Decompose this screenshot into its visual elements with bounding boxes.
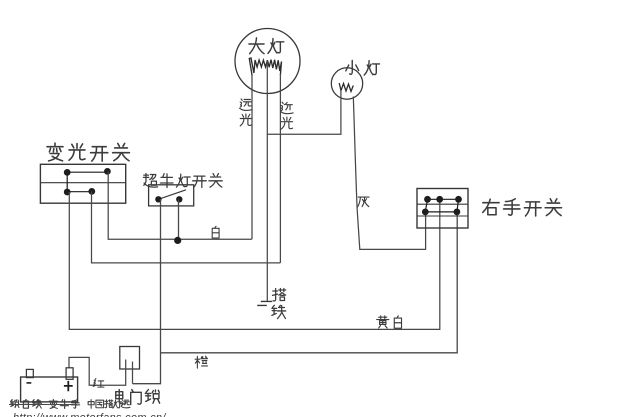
dimmer contact dot bottom-right	[88, 188, 95, 195]
right switch contact dot mid-left	[422, 209, 429, 216]
right-hand switch box 右手开关	[417, 189, 468, 229]
battery body	[21, 377, 78, 402]
dimmer contact dot bottom-left	[64, 189, 71, 196]
wire: white 白 wire from dimmer top-right to 远光	[108, 171, 252, 239]
label 黄白	[377, 316, 402, 328]
passing switch contact dot right	[176, 196, 182, 202]
label 搭铁	[272, 288, 286, 318]
wire: 小灯 grey 灰 wire down to right-hand switch	[353, 97, 425, 250]
ignition lock left pin + red 红 wire to battery	[69, 357, 126, 385]
right switch contact dot top-middle	[436, 196, 443, 203]
right switch internal link wires	[425, 199, 458, 212]
passing switch lever arm	[158, 190, 186, 200]
dimmer contact dot top-right	[104, 168, 111, 175]
battery negative post	[26, 369, 33, 377]
label 远光	[240, 99, 252, 126]
wire: passing switch to white wire junction	[178, 199, 180, 239]
wire: orange 橙 run to right switch	[161, 212, 458, 353]
大灯 low-beam filament	[267, 60, 281, 75]
label 橙	[195, 356, 207, 368]
label 近光	[281, 102, 293, 129]
label 小灯	[346, 60, 380, 75]
right switch contact dot mid-right	[454, 209, 461, 216]
wire: high-beam 远光 drop from 大灯 to white wire	[251, 74, 253, 239]
svg-text:http://www.motorfans.com.cn/: http://www.motorfans.com.cn/	[13, 412, 166, 417]
wire: yellow-white 黄白 run from dimmer to right switch	[69, 192, 440, 329]
dimmer contact dot top-left	[64, 169, 71, 176]
dimmer internal link wires	[67, 172, 107, 192]
ignition lock box 电门锁	[120, 347, 140, 370]
ground symbol 搭铁	[257, 301, 272, 305]
大灯 high-beam filament	[249, 58, 267, 75]
small lamp circle 小灯	[331, 68, 362, 99]
passing switch contact dot left	[155, 196, 161, 202]
wire: low-beam 近光 drop from 大灯	[279, 74, 281, 263]
label 白	[212, 226, 219, 238]
label 超车灯开关	[143, 174, 222, 188]
wire: low-beam link dimmer to lamp	[92, 191, 281, 263]
label 灰	[358, 197, 369, 207]
battery positive post	[66, 368, 73, 380]
label 变光开关	[47, 143, 129, 161]
label 大灯	[249, 38, 284, 54]
battery minus sign	[27, 382, 32, 384]
wire: lamp common drop to ground 搭铁	[266, 61, 268, 301]
wire: long feed from passing switch down to ignition lock	[133, 199, 161, 383]
battery plus sign	[64, 381, 73, 391]
junction dot on white wire	[174, 237, 181, 244]
watermark line 1	[10, 399, 79, 408]
label 右手开关	[483, 199, 562, 216]
right switch contact dot top-left	[424, 196, 431, 203]
headlamp big circle 大灯	[235, 29, 300, 94]
ignition lock right pin	[132, 362, 134, 384]
小灯 filament	[339, 83, 353, 92]
dimmer switch box 变光开关	[40, 164, 125, 203]
label 红	[93, 379, 104, 388]
right switch contact dot top-right	[455, 196, 462, 203]
passing-lamp switch box 超车灯开关	[149, 185, 194, 206]
label 电门锁	[116, 390, 160, 405]
wire: 小灯 ground leg to common	[267, 90, 341, 134]
